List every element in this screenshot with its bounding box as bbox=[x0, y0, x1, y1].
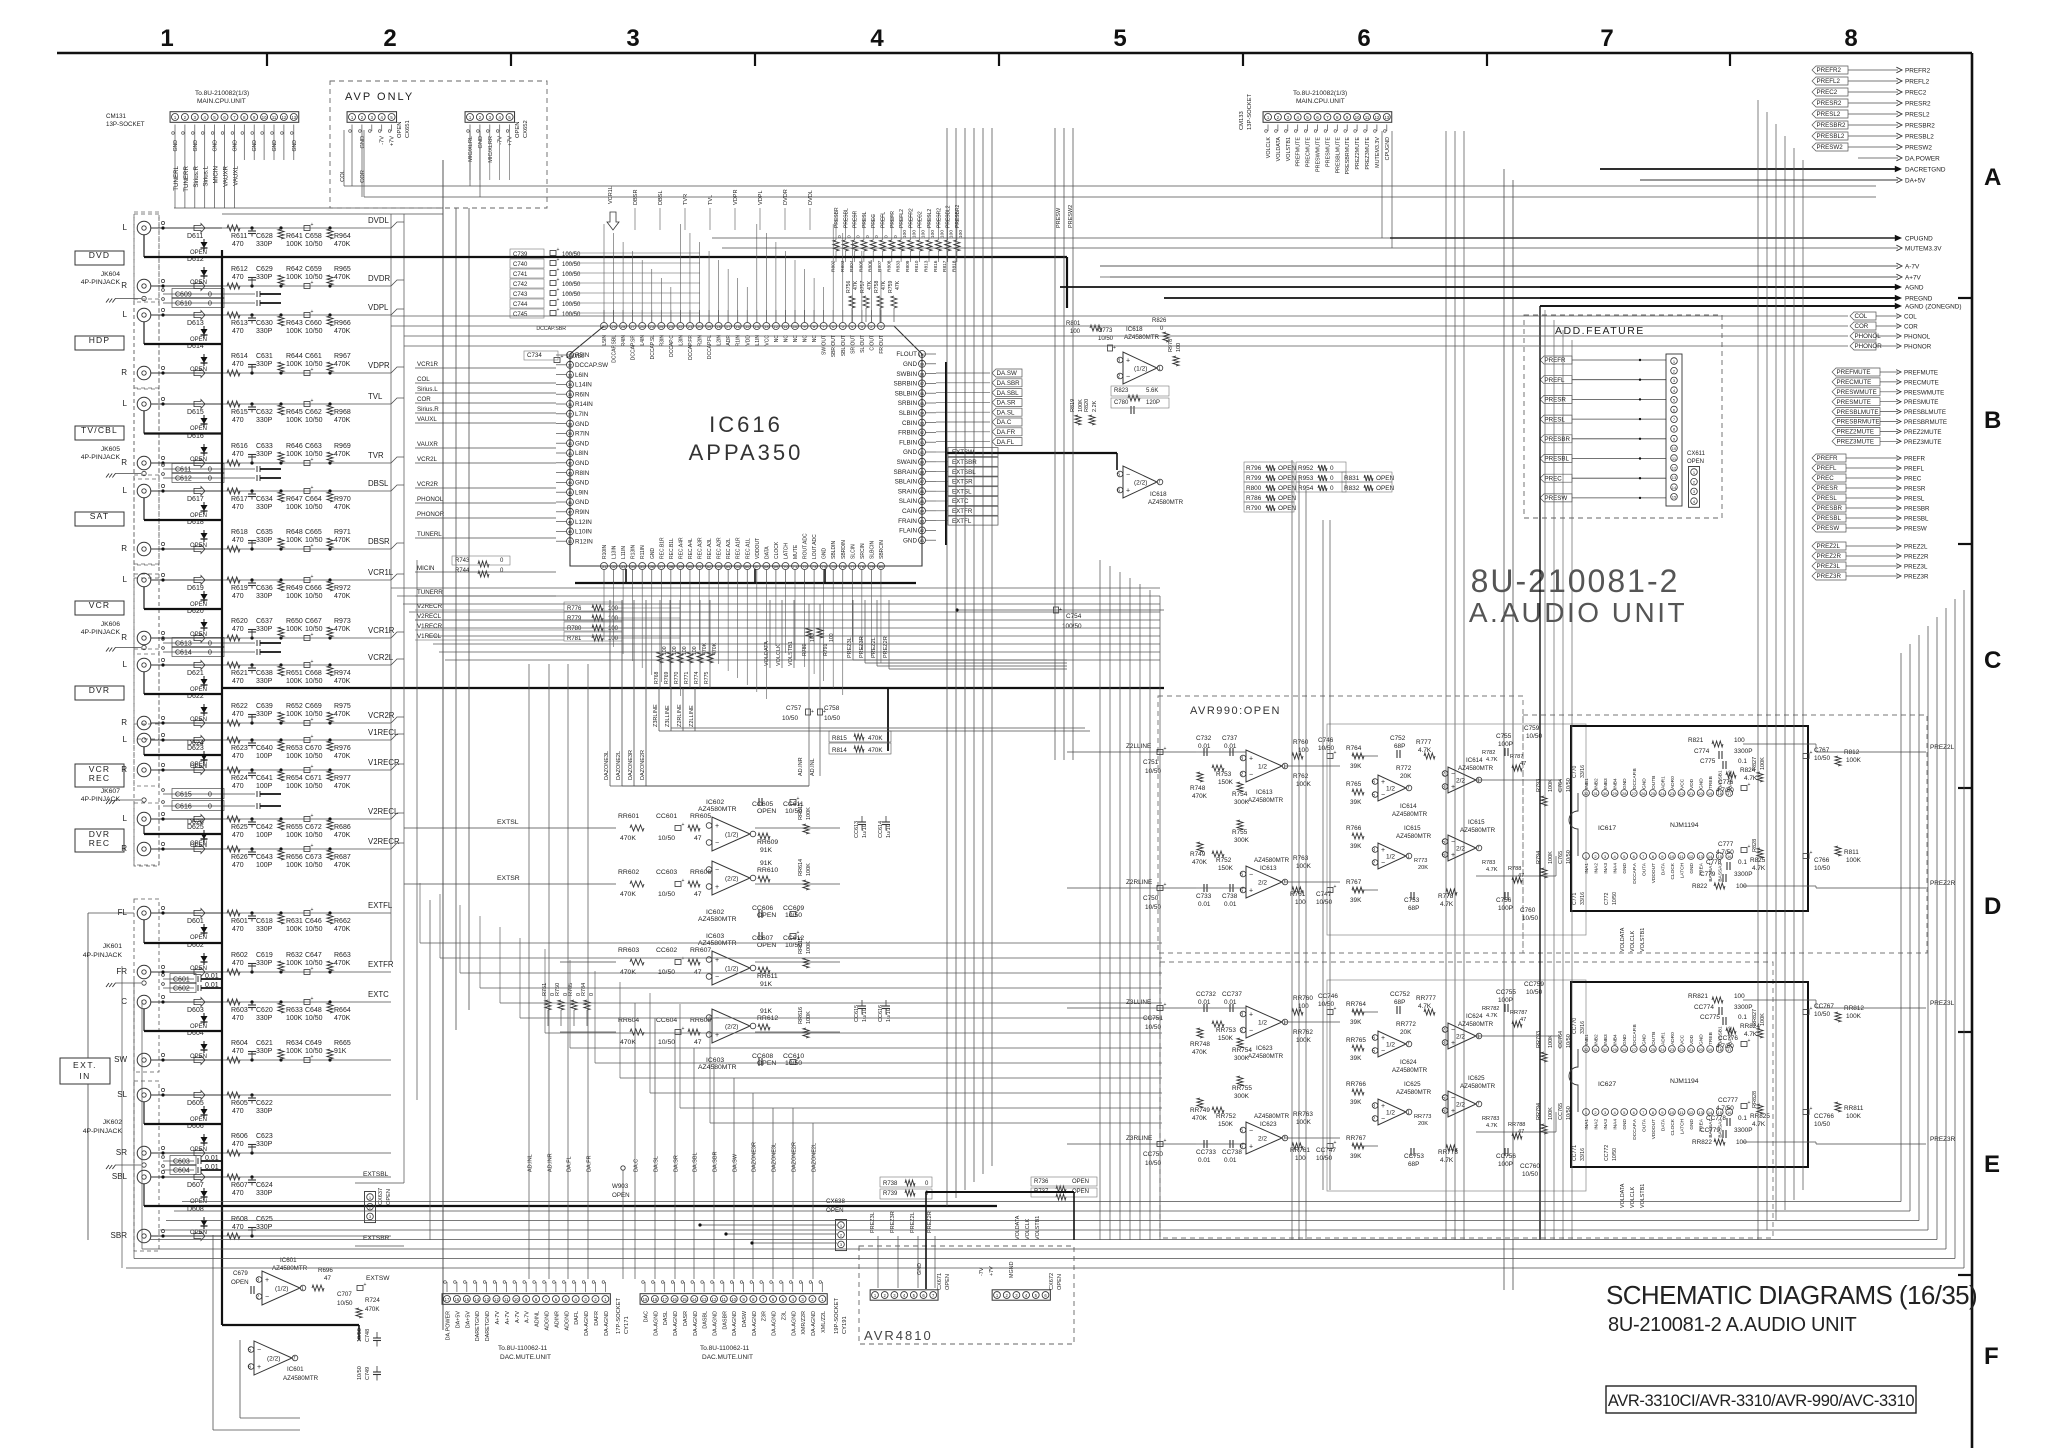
svg-text:79: 79 bbox=[869, 564, 874, 569]
svg-text:C628: C628 bbox=[256, 233, 273, 240]
op-amp IC603 (1/2) bbox=[712, 951, 750, 985]
svg-text:L: L bbox=[123, 575, 128, 584]
svg-text:39K: 39K bbox=[1350, 1153, 1362, 1160]
svg-text:IC616: IC616 bbox=[709, 412, 783, 437]
svg-text:−: − bbox=[1451, 771, 1455, 778]
svg-text:19: 19 bbox=[1708, 1047, 1713, 1052]
resistor array R768-R775 bbox=[659, 600, 661, 688]
pin 13 bbox=[1697, 853, 1704, 860]
svg-text:VOLSTB1: VOLSTB1 bbox=[1640, 928, 1646, 952]
svg-text:11: 11 bbox=[1365, 115, 1370, 120]
resistor R686 bbox=[328, 817, 331, 820]
svg-text:DBSL: DBSL bbox=[368, 479, 389, 488]
svg-text:−: − bbox=[1126, 472, 1130, 479]
svg-text:+: + bbox=[1164, 1002, 1167, 1008]
pin 81 GND bbox=[919, 537, 926, 544]
svg-text:69: 69 bbox=[774, 564, 779, 569]
resistor R616 bbox=[227, 460, 240, 466]
svg-text:COL: COL bbox=[340, 169, 346, 182]
RCA pin jack bbox=[137, 995, 151, 1009]
node DA.SBL bbox=[936, 392, 990, 394]
svg-text:GND: GND bbox=[575, 460, 589, 467]
svg-text:470: 470 bbox=[232, 417, 244, 424]
node PRESW2 bbox=[1812, 143, 1848, 151]
svg-text:FLAIN: FLAIN bbox=[899, 528, 917, 535]
svg-text:2: 2 bbox=[1240, 772, 1243, 778]
resistor R651 bbox=[279, 663, 282, 666]
svg-text:PHONOL: PHONOL bbox=[1855, 333, 1882, 340]
svg-text:R968: R968 bbox=[334, 409, 351, 416]
svg-text:OPEN: OPEN bbox=[190, 457, 207, 463]
bold ground bus bbox=[143, 411, 145, 434]
svg-text:IC627: IC627 bbox=[1598, 1081, 1616, 1088]
svg-text:10: 10 bbox=[1672, 446, 1677, 451]
svg-text:+: + bbox=[797, 930, 800, 936]
input jack row wire bbox=[151, 1001, 222, 1003]
svg-text:VAUXR: VAUXR bbox=[417, 441, 438, 448]
svg-text:+: + bbox=[1249, 1012, 1253, 1019]
resistor R650 bbox=[279, 636, 282, 639]
svg-text:ADGND: ADGND bbox=[564, 1311, 570, 1331]
svg-text:+: + bbox=[1748, 782, 1751, 788]
svg-text:R602: R602 bbox=[231, 952, 248, 959]
svg-text:10/50: 10/50 bbox=[305, 537, 323, 544]
input jack row wire bbox=[151, 912, 222, 914]
svg-text:+: + bbox=[682, 956, 685, 962]
svg-text:V1RECL: V1RECL bbox=[417, 633, 442, 640]
svg-text:1: 1 bbox=[1407, 1110, 1410, 1116]
AVR990 dashed box bbox=[1158, 696, 1523, 953]
resistor R623 bbox=[227, 737, 240, 743]
svg-text:100P: 100P bbox=[256, 783, 273, 790]
svg-text:0: 0 bbox=[208, 301, 212, 308]
pin 31 R5IN bbox=[567, 352, 574, 359]
svg-text:PRESW: PRESW bbox=[1817, 525, 1840, 532]
svg-text:MUTEM3.3V: MUTEM3.3V bbox=[1905, 246, 1942, 253]
bold ground bus bbox=[143, 826, 145, 834]
svg-text:OPEN: OPEN bbox=[1072, 1179, 1089, 1185]
svg-text:93: 93 bbox=[920, 420, 925, 425]
svg-text:10/50: 10/50 bbox=[305, 1015, 323, 1022]
svg-text:100K: 100K bbox=[286, 960, 303, 967]
svg-text:DA.FL: DA.FL bbox=[997, 439, 1015, 446]
svg-text:96: 96 bbox=[920, 391, 925, 396]
svg-text:6: 6 bbox=[1372, 1036, 1375, 1042]
bold bus AGND right bbox=[1060, 286, 1898, 288]
svg-text:DA.C: DA.C bbox=[997, 419, 1012, 426]
resistor R653 bbox=[279, 738, 282, 741]
svg-text:IC624: IC624 bbox=[1400, 1059, 1417, 1066]
svg-text:100K: 100K bbox=[286, 678, 303, 685]
resistor R631 bbox=[279, 911, 282, 914]
svg-text:R624: R624 bbox=[231, 775, 248, 782]
svg-text:2: 2 bbox=[1372, 861, 1375, 867]
svg-text:SCHEMATIC DIAGRAMS (16/35): SCHEMATIC DIAGRAMS (16/35) bbox=[1606, 1280, 1977, 1310]
svg-text:C632: C632 bbox=[256, 409, 273, 416]
signal arrow bbox=[194, 661, 205, 670]
svg-text:10/50: 10/50 bbox=[305, 328, 323, 335]
svg-text:23: 23 bbox=[1670, 791, 1675, 796]
pin 16 bbox=[1726, 853, 1733, 860]
pin 14 bbox=[753, 323, 760, 330]
svg-text:2: 2 bbox=[1442, 772, 1445, 778]
svg-text:(1/2): (1/2) bbox=[725, 832, 738, 839]
ground bbox=[142, 645, 146, 649]
svg-text:C744: C744 bbox=[513, 302, 528, 308]
svg-text:R773: R773 bbox=[1414, 858, 1427, 864]
resistor R663 bbox=[328, 970, 331, 973]
svg-text:A+7V: A+7V bbox=[1905, 275, 1922, 282]
pin 27 bbox=[1630, 1046, 1637, 1053]
svg-text:3300P: 3300P bbox=[1734, 748, 1752, 755]
svg-text:23: 23 bbox=[1670, 1047, 1675, 1052]
svg-text:EXTSW: EXTSW bbox=[366, 1275, 390, 1282]
svg-text:D611: D611 bbox=[187, 233, 203, 240]
svg-text:R806: R806 bbox=[868, 260, 874, 272]
svg-text:38: 38 bbox=[568, 421, 573, 426]
svg-text:+: + bbox=[1334, 1140, 1337, 1146]
op-amp U618b bbox=[1123, 466, 1157, 498]
pin 19 bbox=[706, 323, 713, 330]
svg-text:LATCH: LATCH bbox=[783, 543, 789, 559]
pin 6 bbox=[1630, 853, 1637, 860]
svg-text:(1/2): (1/2) bbox=[725, 966, 738, 973]
svg-text:47: 47 bbox=[1520, 1017, 1526, 1023]
input jack row wire bbox=[151, 848, 222, 850]
svg-text:C671: C671 bbox=[305, 775, 322, 782]
svg-text:OPEN: OPEN bbox=[190, 426, 207, 432]
svg-text:17: 17 bbox=[662, 1297, 667, 1302]
svg-text:10/50: 10/50 bbox=[1098, 336, 1114, 342]
svg-text:R606: R606 bbox=[231, 1133, 248, 1140]
svg-text:ADR1: ADR1 bbox=[1660, 776, 1666, 789]
svg-text:66: 66 bbox=[745, 564, 750, 569]
svg-text:ADINR: ADINR bbox=[554, 1311, 560, 1328]
pin 21 bbox=[1688, 1046, 1695, 1053]
wire stubs bbox=[351, 125, 353, 132]
svg-text:PREZ3L: PREZ3L bbox=[1904, 564, 1928, 571]
svg-text:PRESBL2: PRESBL2 bbox=[1817, 133, 1845, 140]
node EXTFR bbox=[936, 510, 948, 512]
pin 15 bbox=[1716, 1109, 1723, 1116]
RCA pin jack bbox=[137, 1088, 151, 1102]
capacitor C670 bbox=[304, 738, 310, 743]
svg-text:+7V: +7V bbox=[390, 136, 396, 146]
resistor R614 bbox=[227, 370, 240, 376]
svg-text:B: B bbox=[1984, 407, 2001, 434]
svg-text:68: 68 bbox=[764, 564, 769, 569]
svg-text:300K: 300K bbox=[1234, 1093, 1250, 1100]
svg-text:30: 30 bbox=[1603, 1047, 1608, 1052]
svg-text:DA.SBL: DA.SBL bbox=[997, 390, 1020, 397]
svg-text:EXTFL: EXTFL bbox=[952, 518, 972, 525]
svg-text:R607: R607 bbox=[231, 1182, 248, 1189]
svg-text:L13IN: L13IN bbox=[612, 545, 618, 559]
svg-text:R: R bbox=[121, 765, 127, 774]
svg-text:DA+5V: DA+5V bbox=[455, 1311, 461, 1329]
resistor R810 bbox=[917, 240, 923, 251]
svg-text:100: 100 bbox=[902, 230, 908, 238]
svg-text:87: 87 bbox=[920, 479, 925, 484]
svg-text:330P: 330P bbox=[256, 328, 273, 335]
svg-text:4: 4 bbox=[870, 25, 884, 52]
svg-text:150K: 150K bbox=[1218, 865, 1234, 872]
svg-text:10/50: 10/50 bbox=[1814, 755, 1830, 762]
svg-text:470K: 470K bbox=[1192, 1115, 1208, 1122]
svg-text:GND: GND bbox=[173, 140, 179, 152]
svg-text:13P-SOCKET: 13P-SOCKET bbox=[106, 121, 145, 128]
svg-text:100K: 100K bbox=[286, 274, 303, 281]
pin 96 SBLBIN bbox=[919, 390, 926, 397]
svg-text:VDPL: VDPL bbox=[368, 303, 389, 312]
svg-text:+: + bbox=[1748, 844, 1751, 850]
svg-text:1u/10: 1u/10 bbox=[886, 824, 892, 838]
svg-text:OPEN: OPEN bbox=[945, 1274, 951, 1290]
svg-text:2: 2 bbox=[1240, 1028, 1243, 1034]
svg-text:ADR1: ADR1 bbox=[1660, 1032, 1666, 1045]
node EXTSR bbox=[936, 480, 948, 482]
svg-text:CY191: CY191 bbox=[842, 1316, 848, 1334]
svg-text:470: 470 bbox=[232, 1048, 244, 1055]
svg-text:PREFMUTE: PREFMUTE bbox=[1296, 137, 1302, 167]
svg-text:56: 56 bbox=[650, 564, 655, 569]
svg-text:VCC: VCC bbox=[1680, 1034, 1686, 1045]
svg-text:PRESL: PRESL bbox=[1545, 416, 1566, 423]
svg-text:SBL OUT: SBL OUT bbox=[841, 335, 847, 356]
svg-text:100K: 100K bbox=[1548, 851, 1554, 864]
svg-text:100: 100 bbox=[1298, 1003, 1309, 1010]
svg-text:DAC: DAC bbox=[644, 1311, 650, 1322]
svg-text:16: 16 bbox=[455, 1297, 460, 1302]
pin 42 GND bbox=[567, 459, 574, 466]
svg-text:EXTFL: EXTFL bbox=[368, 901, 393, 910]
ADD.FEATURE dashed box bbox=[1524, 315, 1722, 518]
svg-text:AZ4580MTR: AZ4580MTR bbox=[1124, 334, 1160, 341]
capacitor C631 bbox=[250, 371, 253, 374]
svg-text:PREC2: PREC2 bbox=[1905, 90, 1927, 97]
resistor R969 bbox=[328, 461, 331, 464]
svg-text:+: + bbox=[557, 247, 560, 253]
capacitor C668 bbox=[304, 663, 310, 668]
pin 44 GND bbox=[567, 479, 574, 486]
svg-text:SRAIN: SRAIN bbox=[898, 488, 918, 495]
svg-text:PRESW2: PRESW2 bbox=[1817, 144, 1844, 151]
pin 9 bbox=[801, 323, 808, 330]
svg-text:PRESBRMUTE: PRESBRMUTE bbox=[1345, 137, 1351, 175]
svg-text:CC756: CC756 bbox=[1496, 1153, 1516, 1160]
svg-text:CC774: CC774 bbox=[1694, 1004, 1714, 1011]
svg-text:R970: R970 bbox=[334, 496, 351, 503]
RCA pin jack bbox=[137, 542, 151, 556]
pin 3 bbox=[1602, 1109, 1609, 1116]
node PREFR2 bbox=[1812, 66, 1848, 74]
svg-text:R771: R771 bbox=[684, 671, 690, 684]
pin 9 bbox=[1659, 1109, 1666, 1116]
svg-text:C755: C755 bbox=[1496, 733, 1512, 740]
svg-text:SBRCIN: SBRCIN bbox=[879, 540, 885, 559]
svg-text:DCCAP.SBR: DCCAP.SBR bbox=[536, 326, 566, 332]
RCA pin jack bbox=[137, 842, 151, 856]
svg-text:PRESR: PRESR bbox=[1817, 485, 1839, 492]
svg-text:CC746: CC746 bbox=[1318, 993, 1338, 1000]
svg-text:Sirius.R: Sirius.R bbox=[417, 406, 439, 413]
svg-text:R755: R755 bbox=[1232, 829, 1248, 836]
svg-text:L10IN: L10IN bbox=[575, 529, 592, 536]
svg-text:13: 13 bbox=[1698, 1110, 1703, 1115]
capacitor C664 bbox=[304, 489, 310, 494]
svg-text:7: 7 bbox=[1477, 846, 1480, 852]
svg-text:GND: GND bbox=[1622, 778, 1628, 789]
svg-text:10: 10 bbox=[1670, 1110, 1675, 1115]
svg-text:C615: C615 bbox=[175, 792, 192, 799]
svg-text:MIC/XLRL: MIC/XLRL bbox=[468, 136, 474, 162]
svg-text:ROUT.ADC: ROUT.ADC bbox=[803, 533, 809, 559]
svg-text:ADR0: ADR0 bbox=[1670, 776, 1676, 789]
svg-text:1: 1 bbox=[1477, 778, 1480, 784]
resistor R967 bbox=[328, 371, 331, 374]
svg-text:470K: 470K bbox=[334, 711, 351, 718]
svg-text:C646: C646 bbox=[305, 918, 322, 925]
svg-text:(2/2): (2/2) bbox=[1134, 480, 1147, 487]
svg-text:TVR: TVR bbox=[683, 194, 689, 205]
svg-text:PHONOL: PHONOL bbox=[1904, 334, 1931, 341]
svg-text:C750: C750 bbox=[1143, 895, 1159, 902]
svg-text:+: + bbox=[1451, 784, 1455, 791]
svg-text:0: 0 bbox=[1330, 465, 1334, 472]
svg-text:OUTB: OUTB bbox=[1651, 776, 1657, 789]
svg-text:−: − bbox=[1381, 792, 1385, 799]
svg-text:10/50: 10/50 bbox=[305, 1048, 323, 1055]
svg-text:DA.SL: DA.SL bbox=[654, 1156, 660, 1172]
svg-text:6: 6 bbox=[248, 1365, 251, 1371]
pin 34 L14IN bbox=[567, 381, 574, 388]
node PRESR bbox=[1812, 484, 1846, 492]
svg-text:PRESBL: PRESBL bbox=[1817, 515, 1842, 522]
node PHONOR bbox=[1850, 342, 1876, 350]
svg-text:22: 22 bbox=[1679, 1047, 1684, 1052]
svg-text:R831: R831 bbox=[1344, 475, 1360, 482]
svg-text:22: 22 bbox=[1679, 791, 1684, 796]
svg-text:+: + bbox=[311, 485, 314, 491]
svg-text:0.1: 0.1 bbox=[1738, 758, 1747, 765]
svg-text:C629: C629 bbox=[256, 266, 273, 273]
svg-text:D626: D626 bbox=[187, 819, 204, 826]
svg-text:34: 34 bbox=[568, 382, 573, 387]
svg-text:0.01: 0.01 bbox=[1224, 901, 1237, 908]
node DA.POWER bbox=[1858, 157, 1898, 159]
node COL bbox=[1850, 312, 1876, 320]
svg-text:PREFR: PREFR bbox=[1904, 456, 1926, 463]
svg-text:C663: C663 bbox=[305, 443, 322, 450]
svg-text:330P: 330P bbox=[256, 451, 273, 458]
pin 69 bbox=[772, 563, 779, 570]
svg-text:IC617: IC617 bbox=[1598, 825, 1616, 832]
capacitor C663 bbox=[304, 461, 310, 466]
svg-text:470: 470 bbox=[232, 274, 244, 281]
capacitor C621 bbox=[250, 1058, 253, 1061]
RCA pin jack bbox=[137, 1053, 151, 1067]
svg-text:MGND: MGND bbox=[1009, 1261, 1015, 1278]
svg-text:R768: R768 bbox=[654, 671, 660, 684]
svg-text:R756: R756 bbox=[846, 280, 852, 293]
svg-text:CC760: CC760 bbox=[1520, 1163, 1540, 1170]
svg-text:EXTFR: EXTFR bbox=[368, 960, 394, 969]
svg-text:To.8U-110062-11: To.8U-110062-11 bbox=[700, 1345, 750, 1352]
svg-text:R625: R625 bbox=[231, 824, 248, 831]
svg-text:C766: C766 bbox=[1814, 857, 1830, 864]
svg-text:NJM1194: NJM1194 bbox=[1670, 1078, 1699, 1085]
pin 15 bbox=[744, 323, 751, 330]
svg-text:4.7K: 4.7K bbox=[1486, 867, 1498, 873]
capacitor CC738 bbox=[1229, 1140, 1231, 1148]
svg-text:AGND (ZONEGND): AGND (ZONEGND) bbox=[1905, 304, 1961, 311]
node PRESBR2 bbox=[1812, 121, 1848, 129]
svg-text:R9IN: R9IN bbox=[575, 509, 590, 516]
svg-text:GND: GND bbox=[1622, 862, 1628, 873]
svg-text:RR782: RR782 bbox=[1482, 1006, 1499, 1012]
svg-text:R757: R757 bbox=[860, 280, 866, 293]
svg-text:7: 7 bbox=[1477, 1102, 1480, 1108]
svg-text:6: 6 bbox=[1240, 888, 1243, 894]
svg-text:VCR1R: VCR1R bbox=[417, 361, 439, 368]
svg-text:VAUXL: VAUXL bbox=[417, 416, 437, 423]
svg-text:17P-SOCKET: 17P-SOCKET bbox=[616, 1297, 622, 1334]
svg-text:DVDL: DVDL bbox=[808, 190, 814, 205]
capacitor C640 bbox=[250, 738, 253, 741]
svg-text:RR763: RR763 bbox=[1293, 1111, 1313, 1118]
svg-text:IN: IN bbox=[79, 1071, 91, 1081]
svg-text:CC607: CC607 bbox=[752, 935, 773, 942]
svg-text:68P: 68P bbox=[1394, 743, 1405, 750]
svg-text:GND: GND bbox=[1699, 778, 1705, 789]
svg-text:C604: C604 bbox=[173, 1168, 190, 1175]
svg-text:CBIN: CBIN bbox=[902, 420, 917, 427]
svg-text:AD.INR: AD.INR bbox=[548, 1153, 554, 1172]
svg-text:OPEN: OPEN bbox=[190, 280, 207, 286]
svg-text:100K: 100K bbox=[286, 1015, 303, 1022]
svg-text:VAUXR: VAUXR bbox=[223, 165, 230, 186]
svg-text:PREZ2MUTE: PREZ2MUTE bbox=[1355, 137, 1361, 170]
svg-text:C661: C661 bbox=[305, 353, 322, 360]
svg-text:+: + bbox=[1381, 779, 1385, 786]
input jack row wire bbox=[151, 285, 222, 287]
svg-text:DVDR: DVDR bbox=[368, 274, 390, 283]
svg-text:GND: GND bbox=[903, 449, 917, 456]
resistor R808 bbox=[889, 240, 895, 251]
svg-text:DASR: DASR bbox=[683, 1311, 689, 1326]
svg-text:R686: R686 bbox=[334, 824, 351, 831]
svg-text:DAZONE2L: DAZONE2L bbox=[616, 751, 622, 780]
svg-text:+: + bbox=[1164, 882, 1167, 888]
pin 46 GND bbox=[567, 499, 574, 506]
svg-text:CC615: CC615 bbox=[854, 1005, 860, 1022]
svg-text:17: 17 bbox=[445, 1297, 450, 1302]
svg-text:PRESBR: PRESBR bbox=[1545, 436, 1571, 443]
pin 7 bbox=[1640, 853, 1647, 860]
svg-text:470: 470 bbox=[232, 328, 244, 335]
svg-text:5: 5 bbox=[1113, 25, 1126, 52]
svg-text:R762: R762 bbox=[1293, 773, 1309, 780]
svg-text:GND: GND bbox=[193, 140, 199, 152]
wire bbox=[560, 1031, 616, 1033]
resistor R655 bbox=[279, 817, 282, 820]
input group label TV/CBL bbox=[75, 426, 124, 440]
svg-text:0.01: 0.01 bbox=[1198, 1157, 1211, 1164]
svg-text:R793: R793 bbox=[1536, 779, 1542, 792]
svg-text:FR OUT: FR OUT bbox=[879, 335, 885, 354]
bold ground bus bbox=[143, 235, 145, 257]
op-amp IC603 (2/2) bbox=[712, 1009, 750, 1043]
